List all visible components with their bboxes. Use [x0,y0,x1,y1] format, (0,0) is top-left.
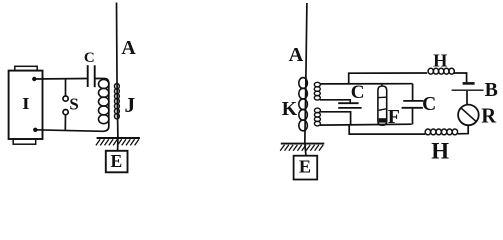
svg-text:J: J [124,93,135,117]
svg-text:A: A [289,44,304,66]
svg-text:S: S [69,94,78,113]
svg-text:H: H [431,138,449,163]
svg-text:A: A [121,37,136,59]
svg-text:C: C [351,82,365,103]
svg-text:H: H [433,51,447,71]
svg-text:B: B [485,79,498,101]
svg-text:R: R [481,106,497,128]
svg-text:I: I [22,94,29,113]
svg-text:F: F [388,106,400,128]
svg-text:E: E [111,151,123,171]
svg-text:K: K [282,98,298,120]
svg-text:C: C [84,50,95,66]
svg-text:C: C [422,94,436,115]
svg-text:E: E [299,157,311,177]
